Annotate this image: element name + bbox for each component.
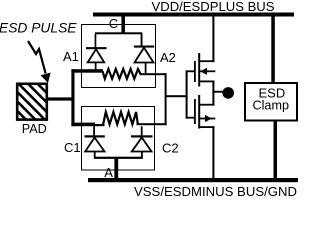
- wire clamp to VDD bus: [271, 17, 275, 84]
- svg-text:A1: A1: [63, 49, 79, 64]
- svg-text:C1: C1: [64, 140, 81, 155]
- svg-text:A: A: [104, 165, 113, 180]
- resistor top (between A1 and A2 anodes): [103, 69, 141, 79]
- svg-text:ESD PULSE: ESD PULSE: [0, 20, 77, 36]
- diode A2: [134, 34, 154, 73]
- transistor NMOS pull-down: [194, 91, 215, 178]
- resistor bottom (between C1 and C2 cathodes): [103, 112, 138, 125]
- wire A stub to VSS bus: [114, 158, 118, 178]
- ESD clamp box: [245, 83, 297, 121]
- svg-text:C2: C2: [162, 141, 179, 156]
- svg-text:A2: A2: [160, 50, 176, 65]
- top secondary box outline: [82, 25, 156, 88]
- transistor PMOS pull-up: [194, 17, 215, 93]
- wire gate link vertical: [186, 70, 188, 118]
- diode C1: [85, 126, 105, 158]
- diode C2: [131, 126, 153, 158]
- svg-text:VDD/ESDPLUS BUS: VDD/ESDPLUS BUS: [152, 0, 275, 14]
- wire rail to A1 anode (thick): [71, 69, 103, 73]
- wire mid vertical (A2/C2 common node): [165, 73, 167, 125]
- wire cathode bus of A1/A2: [95, 32, 142, 34]
- bottom secondary box outline: [82, 107, 155, 171]
- svg-text:C: C: [109, 16, 118, 31]
- ESD pulse lightning arrow: [28, 41, 46, 74]
- wire to PMOS gate: [187, 70, 194, 72]
- wire C2 cathode to mid vertical: [137, 123, 167, 125]
- svg-text:Clamp: Clamp: [253, 98, 290, 113]
- wire drains to output node: [213, 91, 223, 93]
- svg-text:VSS/ESDMINUS BUS/GND: VSS/ESDMINUS BUS/GND: [134, 184, 297, 197]
- wire A2 anode to mid vertical: [140, 73, 167, 75]
- wire pad rail vertical: [71, 69, 74, 126]
- wire C1 to resistor: [95, 124, 105, 126]
- diode A1: [86, 34, 107, 70]
- wire node to gate link: [166, 95, 188, 97]
- node output dot: [222, 87, 234, 99]
- wire anode bus of C1/C2: [94, 157, 143, 159]
- wire clamp to VSS bus: [274, 121, 278, 179]
- wire pad to rail: [47, 97, 73, 100]
- wire C stub from VDD bus: [121, 16, 125, 34]
- wire rail to C1 cathode (thick): [71, 123, 95, 127]
- VDD/ESDPLUS bus: [93, 13, 294, 17]
- VSS/ESDMINUS bus: [88, 178, 298, 182]
- svg-text:PAD: PAD: [22, 122, 47, 136]
- wire to NMOS gate: [187, 117, 194, 119]
